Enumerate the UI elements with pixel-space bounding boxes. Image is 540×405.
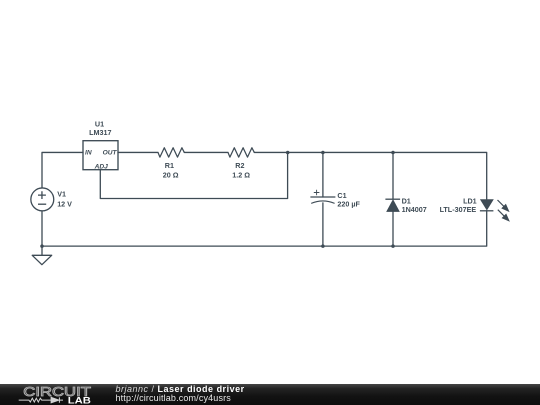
svg-text:U1: U1 [95,119,104,128]
diode D1 [385,199,400,211]
svg-text:R2: R2 [235,161,244,170]
wire: C1 bottom lead [322,203,324,246]
label U1 [89,119,111,137]
wire: D1 leads [392,152,394,246]
wire: node C to LD1 top [393,152,487,199]
node D (ground rail at C1) [321,244,325,248]
label C1 value [337,191,360,209]
pin OUT [103,150,118,157]
wire: R2 to node A [254,151,287,153]
label D1 value [402,197,427,215]
svg-text:LM317: LM317 [89,128,111,137]
wire: ground rail D1 to C1 [323,245,393,247]
resistor R2 [228,148,254,157]
svg-text:220 µF: 220 µF [337,199,360,208]
wire: V1 bottom lead [41,211,43,246]
regulator U1 LM317 [83,141,118,170]
ground [32,246,52,265]
wire: feedback node A to U1 ADJ [100,152,287,198]
LED LD1 [480,200,494,211]
voltage source V1 [31,188,54,211]
svg-text:R1: R1 [165,161,174,170]
pin IN [85,150,92,157]
footer credit text [116,384,245,394]
pin ADJ [94,164,109,171]
wire: ground rail C1 to V1 [42,245,323,247]
svg-text:1N4007: 1N4007 [402,205,427,214]
wire: LD1 bottom to ground rail [393,211,487,246]
svg-text:12 V: 12 V [57,199,72,208]
svg-text:ADJ: ADJ [94,164,109,171]
wire: R1 to R2 [184,151,228,153]
wire: node B to node C [323,151,393,153]
node E (ground rail at D1) [391,244,395,248]
label V1 value [57,190,72,209]
label LD1 value [440,197,477,215]
label R2 value [232,161,250,180]
wire: V1 top to U1 IN [42,152,83,187]
wire: node A to node B [288,151,323,153]
svg-text:V1: V1 [57,190,66,199]
node A [286,151,290,155]
label R1 value [163,161,179,180]
resistor R1 [158,148,184,157]
svg-text:LTL-307EE: LTL-307EE [440,205,477,214]
wire: C1 top lead [322,152,324,197]
logo wire squiggle [19,397,63,402]
CircuitLab logo [0,384,110,405]
node F (ground rail at V1) [40,244,44,248]
capacitor C1 [310,190,335,204]
wire: U1 OUT to R1 [118,151,158,153]
svg-text:20 Ω: 20 Ω [163,170,179,179]
node C [391,151,395,155]
svg-text:LAB: LAB [68,395,92,405]
LD1 light arrows [498,200,509,221]
node B [321,151,325,155]
svg-text:1.2 Ω: 1.2 Ω [232,170,250,179]
svg-text:IN: IN [85,150,92,157]
svg-text:OUT: OUT [103,150,118,157]
